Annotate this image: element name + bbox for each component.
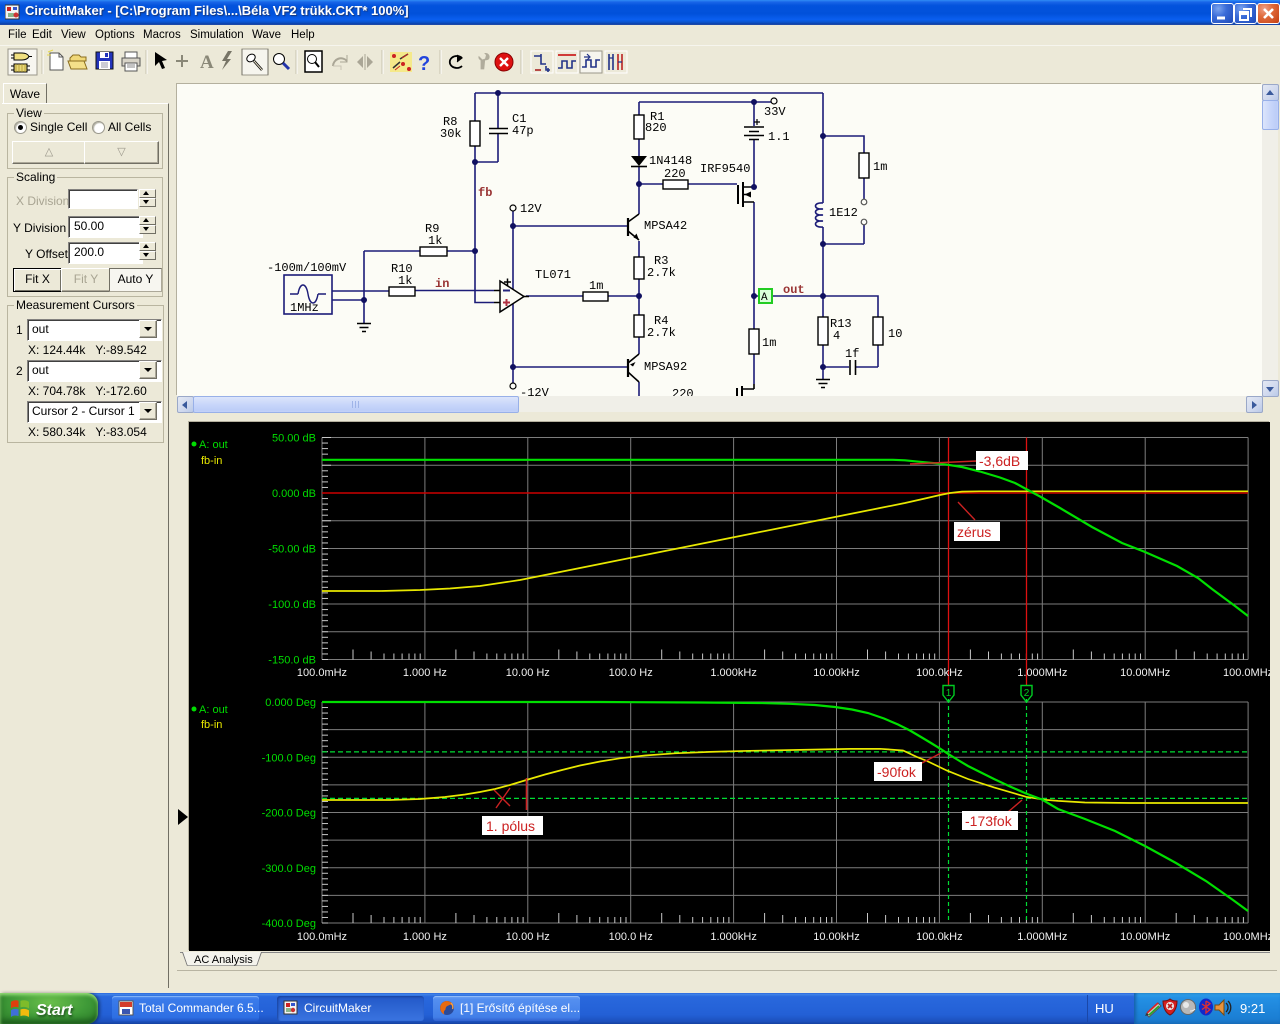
resistor R10 <box>389 287 415 296</box>
svg-text:fb: fb <box>478 186 492 200</box>
svg-text:1.000kHz: 1.000kHz <box>710 931 756 943</box>
svg-text:1: 1 <box>946 688 952 699</box>
connector gap circles on 1m branch <box>861 199 867 225</box>
svg-text:100.0 Hz: 100.0 Hz <box>609 931 653 943</box>
svg-text:A: out: A: out <box>199 439 228 451</box>
svg-text:1k: 1k <box>428 234 442 248</box>
svg-text:0.000 Deg: 0.000 Deg <box>265 697 316 709</box>
svg-text:IRF9540: IRF9540 <box>700 162 750 176</box>
Scaling group <box>7 177 163 297</box>
node 12V <box>510 202 542 216</box>
source V1 sine box <box>284 275 332 314</box>
svg-text:out: out <box>783 283 805 297</box>
resistor R13 <box>818 317 828 345</box>
scope tool 1 <box>531 51 553 73</box>
upper yellow curve fb-in magnitude <box>322 491 1248 591</box>
svg-text:in: in <box>435 277 449 291</box>
tray icon shield <box>1163 999 1177 1015</box>
wire parallel 1m branch right <box>823 136 864 244</box>
View group <box>7 113 163 169</box>
svg-text:-200.0 Deg: -200.0 Deg <box>262 808 316 820</box>
lower yellow curve fb-in phase <box>322 749 1248 803</box>
resistor R9 <box>420 247 447 256</box>
annotation -90fok <box>920 753 941 764</box>
tray icon pen <box>1145 1003 1161 1017</box>
scope tool 4 <box>605 51 627 73</box>
resistor R4 <box>634 315 644 337</box>
wire 1m to R3/R4 node <box>608 295 639 297</box>
svg-text:-100.0 Deg: -100.0 Deg <box>262 752 316 764</box>
svg-text:1. pólus: 1. pólus <box>486 818 535 834</box>
svg-text:1.000MHz: 1.000MHz <box>1017 931 1067 943</box>
svg-text:1E12: 1E12 <box>829 206 858 220</box>
Wave tab <box>3 83 47 104</box>
arrow tool <box>155 52 167 69</box>
annotation -3,6dB <box>910 461 977 464</box>
upper plot grid <box>322 438 1248 924</box>
svg-text:-12V: -12V <box>520 386 550 396</box>
svg-text:1N4148: 1N4148 <box>649 154 692 168</box>
AC Analysis tab <box>180 952 1270 973</box>
tray icon bluetooth <box>1199 999 1213 1016</box>
mirror disabled <box>357 54 373 70</box>
wire C1 branch <box>475 93 498 162</box>
svg-text:2: 2 <box>1024 688 1030 699</box>
svg-text:100.0kHz: 100.0kHz <box>916 931 962 943</box>
wire 220 to IRF9540 gate <box>688 183 737 185</box>
wire 33V rail <box>639 101 771 103</box>
svg-text:A: A <box>761 292 768 304</box>
rotate disabled <box>333 55 347 70</box>
svg-text:-100m/100mV: -100m/100mV <box>267 261 347 275</box>
svg-text:10.00MHz: 10.00MHz <box>1120 667 1170 679</box>
new file <box>47 50 63 70</box>
wire R3 connections <box>638 241 640 354</box>
zoom magnifier <box>274 54 290 70</box>
svg-text:1k: 1k <box>398 274 412 288</box>
wire R13 to ground <box>822 345 824 379</box>
svg-text:1.1: 1.1 <box>768 130 790 144</box>
svg-text:0.000 dB: 0.000 dB <box>272 488 316 500</box>
wire R1 chain <box>638 102 640 184</box>
resistor R1 <box>634 115 644 139</box>
svg-text:100.0kHz: 100.0kHz <box>916 667 962 679</box>
scope tool 3 pressed <box>580 51 602 73</box>
svg-text:12V: 12V <box>520 202 542 216</box>
Measurement Cursors group <box>7 305 164 443</box>
wire op-amp V+ to 12V and MPSA42 base <box>513 211 628 289</box>
start button <box>0 993 98 1024</box>
svg-text:9:21: 9:21 <box>1240 1001 1265 1016</box>
save floppy <box>96 52 113 69</box>
resistor 1m right <box>859 153 869 178</box>
cursor flag 1 <box>943 686 954 703</box>
resistor 1m lower <box>749 329 759 354</box>
svg-text:2.7k: 2.7k <box>647 266 676 280</box>
svg-text:1m: 1m <box>873 160 887 174</box>
resistor R8 <box>470 121 480 146</box>
svg-text:fb-in: fb-in <box>201 719 222 731</box>
wire out node to right rail <box>754 295 823 297</box>
svg-text:-173fok: -173fok <box>965 813 1013 829</box>
ground R13 <box>816 380 830 388</box>
svg-text:MPSA42: MPSA42 <box>644 219 687 233</box>
svg-text:100.0 Hz: 100.0 Hz <box>609 667 653 679</box>
red 0 dB reference line <box>322 492 1248 494</box>
inductor 1E12 <box>816 203 824 227</box>
dashed -90 deg line <box>322 751 1248 753</box>
reset loop arrow <box>450 55 462 68</box>
open folder <box>68 55 87 69</box>
transistor Q1 MPSA42 <box>628 214 639 240</box>
wire diode node to 220 <box>639 183 663 185</box>
op-amp U1 TL071 <box>494 279 529 313</box>
wire out to 10 resistor <box>823 296 878 317</box>
wire right rail <box>822 93 824 317</box>
svg-text:-90fok: -90fok <box>877 764 917 780</box>
svg-text:50.00 dB: 50.00 dB <box>272 433 316 445</box>
x axis labels <box>297 667 1273 943</box>
lower legend <box>192 704 228 731</box>
upper legend <box>192 439 228 467</box>
dashed -173 deg line <box>322 797 1248 799</box>
svg-text:TL071: TL071 <box>535 268 571 282</box>
svg-text:MPSA92: MPSA92 <box>644 360 687 374</box>
annotation 1. polus <box>526 778 528 810</box>
svg-text:100.0MHz: 100.0MHz <box>1223 667 1270 679</box>
tray divider + HU <box>1087 995 1088 1022</box>
connections icon <box>390 52 412 72</box>
svg-text:220: 220 <box>664 167 686 181</box>
svg-text:4: 4 <box>833 329 840 343</box>
plus tool <box>176 55 188 67</box>
lower green curve out phase <box>322 702 1248 911</box>
resistor 10 <box>873 317 883 345</box>
mosfet lower partial <box>737 384 754 397</box>
resistor 1m mid <box>583 292 608 301</box>
svg-text:1.000MHz: 1.000MHz <box>1017 667 1067 679</box>
svg-text:220: 220 <box>672 387 694 396</box>
svg-text:-300.0 Deg: -300.0 Deg <box>262 863 316 875</box>
annotation zerus <box>958 502 975 520</box>
upper green curve out magnitude <box>322 460 1248 616</box>
wire source to R10 and ground <box>332 251 389 323</box>
svg-text:-3,6dB: -3,6dB <box>979 453 1020 469</box>
svg-text:10.00kHz: 10.00kHz <box>813 667 859 679</box>
wire lower 1m to bottom mosfet <box>753 296 755 384</box>
view doc magnifier <box>305 51 322 72</box>
task button CircuitMaker (active) <box>277 996 424 1021</box>
node 33V <box>764 98 786 119</box>
GRAPHS <box>189 422 1270 951</box>
stop button <box>495 53 513 71</box>
svg-text:100.0mHz: 100.0mHz <box>297 931 347 943</box>
cursor flag 2 <box>1021 686 1032 703</box>
wrench disabled <box>478 53 489 69</box>
probe A out <box>759 289 772 304</box>
ground source <box>357 324 371 332</box>
lightning <box>222 51 232 70</box>
wire MPSA42 collector up to diode node <box>638 184 640 214</box>
wire top feedback rail <box>475 92 823 94</box>
svg-text:-400.0 Deg: -400.0 Deg <box>262 918 316 930</box>
svg-text:820: 820 <box>645 121 667 135</box>
vertical scrollbar <box>1262 84 1278 396</box>
horizontal scrollbar <box>177 396 1262 412</box>
battery 1.1 <box>744 119 764 140</box>
capacitor 1f <box>850 360 856 375</box>
transistor Q2 MPSA92 <box>628 354 639 382</box>
svg-text:33V: 33V <box>764 105 786 119</box>
svg-text:A: A <box>200 52 214 73</box>
task button Firefox <box>433 996 580 1021</box>
wire mosfet drain to out node <box>753 202 755 296</box>
svg-text:1MHz: 1MHz <box>290 301 319 315</box>
tray <box>1134 993 1280 1024</box>
svg-text:1m: 1m <box>762 336 776 350</box>
svg-text:1.000kHz: 1.000kHz <box>710 667 756 679</box>
svg-text:1.000 Hz: 1.000 Hz <box>403 931 447 943</box>
node -12V <box>510 383 550 400</box>
label R8 <box>267 110 902 401</box>
svg-text:10.00MHz: 10.00MHz <box>1120 931 1170 943</box>
svg-text:10: 10 <box>888 327 902 341</box>
svg-text:10.00 Hz: 10.00 Hz <box>506 931 550 943</box>
wire op-amp V- to -12V and MPSA92 base <box>513 304 628 383</box>
wire fb vertical R8 branch <box>474 93 476 290</box>
svg-text:10.00 Hz: 10.00 Hz <box>506 667 550 679</box>
svg-text:A: out: A: out <box>199 704 228 716</box>
splitter arrow <box>178 809 188 825</box>
upper y axis labels <box>262 433 316 931</box>
diode 1N4148 <box>631 156 647 167</box>
cursor 2 red line <box>1026 438 1028 686</box>
svg-text:100.0MHz: 100.0MHz <box>1223 931 1270 943</box>
svg-text:47p: 47p <box>512 124 534 138</box>
resistor R3 <box>634 257 644 279</box>
svg-text:-150.0 dB: -150.0 dB <box>268 655 316 667</box>
wire MPSA92 collector down <box>638 382 640 396</box>
wire fb to op-amp plus input <box>475 290 494 303</box>
wire 1f cap branch <box>823 345 878 367</box>
svg-text:10.00kHz: 10.00kHz <box>813 931 859 943</box>
svg-text:30k: 30k <box>440 127 462 141</box>
svg-text:2.7k: 2.7k <box>647 326 676 340</box>
lower dashed cursor 2 <box>1026 699 1028 923</box>
wire R9 to fb node <box>364 250 475 252</box>
junction dots <box>361 90 826 370</box>
tray icon speaker <box>1215 1000 1231 1015</box>
cursor 1 red line <box>948 438 950 686</box>
probe tool pressed <box>242 49 268 75</box>
task button Total Commander <box>112 996 259 1021</box>
svg-text:1.000 Hz: 1.000 Hz <box>403 667 447 679</box>
svg-text:Start: Start <box>36 1002 73 1019</box>
scope tool 2 <box>556 51 578 73</box>
svg-text:fb-in: fb-in <box>201 455 222 467</box>
wire op-amp output to 1m <box>526 295 583 297</box>
svg-text:?: ? <box>418 53 430 75</box>
lower dashed cursor 1 <box>948 699 950 923</box>
chip browser button <box>8 49 37 75</box>
print <box>122 52 140 71</box>
wire battery to mosfet source <box>753 102 755 187</box>
tray icon volume ball <box>1181 1000 1196 1015</box>
svg-text:-50.00 dB: -50.00 dB <box>268 544 316 556</box>
svg-text:-100.0 dB: -100.0 dB <box>268 599 316 611</box>
mosfet IRF9540 <box>738 182 754 207</box>
axis minor ticks <box>322 438 1243 924</box>
annotation -173fok <box>1008 800 1022 812</box>
resistor 220 upper <box>663 180 688 189</box>
svg-text:zérus: zérus <box>957 524 991 540</box>
svg-text:1f: 1f <box>845 347 859 361</box>
svg-text:100.0mHz: 100.0mHz <box>297 667 347 679</box>
svg-text:1m: 1m <box>589 279 603 293</box>
wire in net R10 to op-amp <box>415 290 494 292</box>
capacitor C1 <box>489 129 508 134</box>
